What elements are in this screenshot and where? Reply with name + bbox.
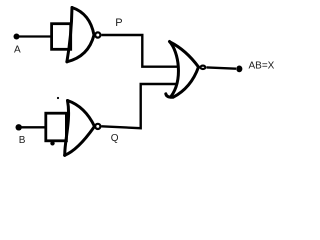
svg-text:B: B [19,135,26,146]
svg-text:P: P [115,17,122,29]
svg-text:AB=X: AB=X [249,61,275,72]
svg-text:Q: Q [111,133,119,144]
svg-text:A: A [14,44,21,55]
